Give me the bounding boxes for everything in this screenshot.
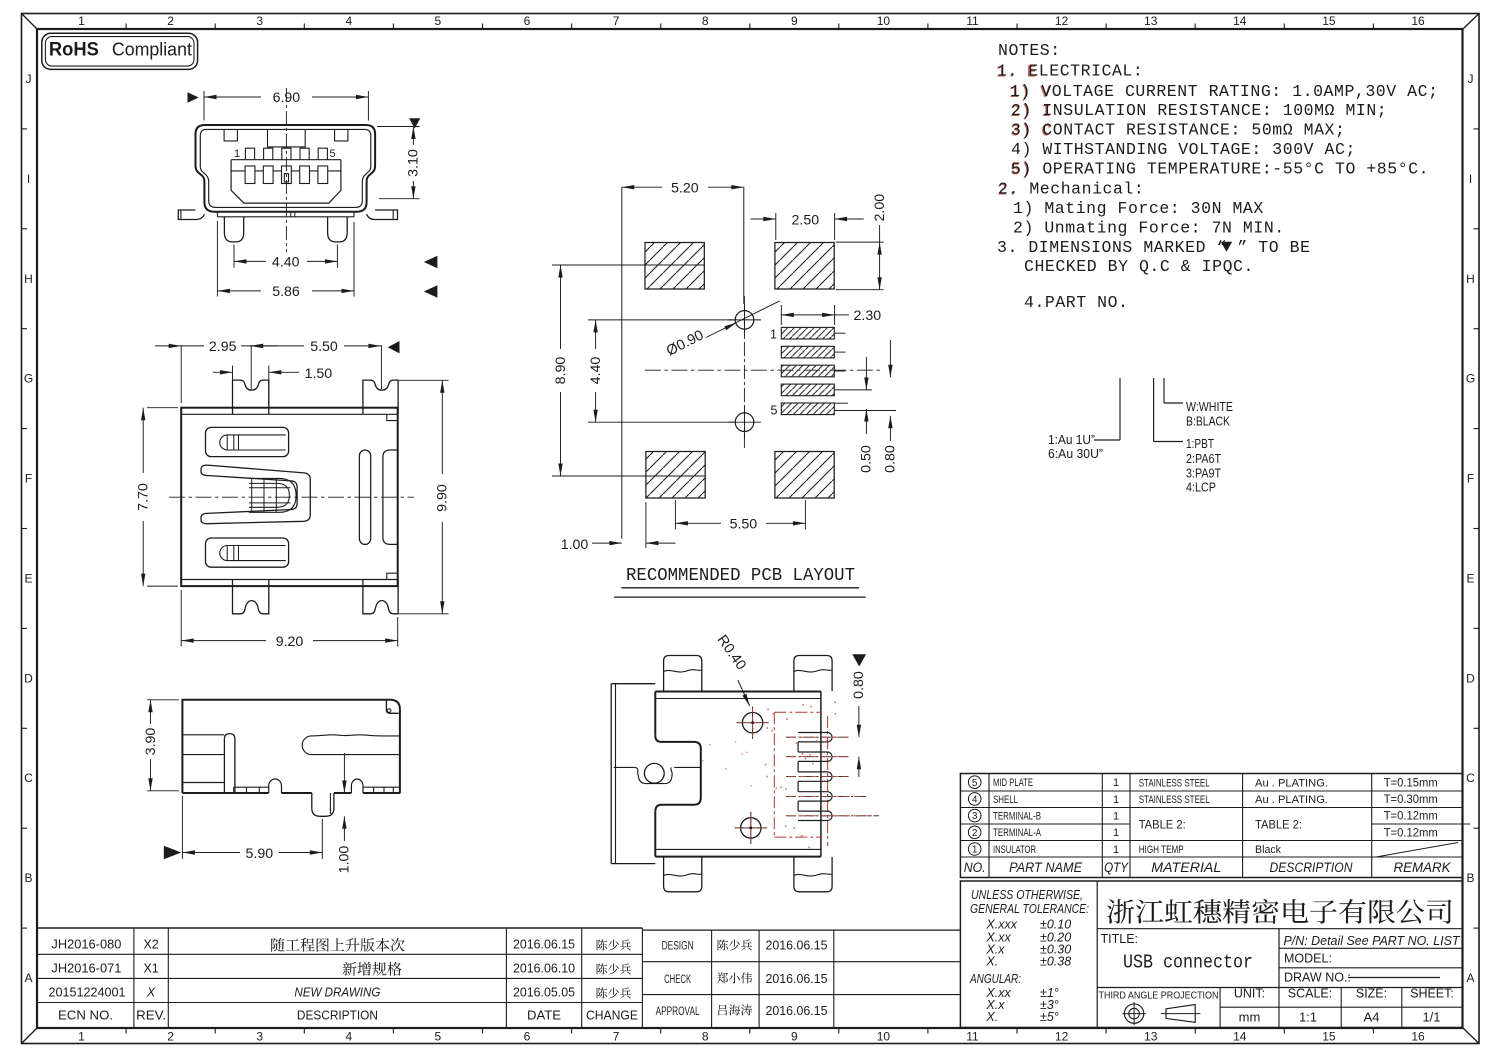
- svg-text:3: 3: [256, 1030, 263, 1044]
- svg-text:D: D: [1466, 671, 1475, 685]
- svg-text:TABLE 2:: TABLE 2:: [1139, 819, 1186, 831]
- bottom view interior C profile: [655, 736, 701, 812]
- dimension 1.50: [232, 366, 234, 405]
- bottom view keyway line and pocket: [614, 766, 635, 768]
- svg-text:TITLE:: TITLE:: [1101, 932, 1139, 946]
- svg-text:8: 8: [702, 14, 709, 28]
- svg-text:16: 16: [1411, 1030, 1425, 1044]
- top view mounting tab top-right: [363, 380, 398, 414]
- svg-text:2016.06.15: 2016.06.15: [766, 939, 828, 953]
- svg-text:3.90: 3.90: [143, 728, 159, 756]
- svg-text:7.70: 7.70: [136, 483, 152, 511]
- svg-text:5.50: 5.50: [310, 339, 338, 355]
- svg-text:9.90: 9.90: [435, 484, 451, 512]
- top view right top notch: [387, 414, 398, 420]
- front view shell outer outline: [196, 125, 376, 212]
- dimension 4.40: [233, 245, 235, 268]
- svg-text:SHEET:: SHEET:: [1410, 987, 1454, 1001]
- svg-text:2016.06.15: 2016.06.15: [766, 972, 828, 986]
- svg-text:3) CONTACT RESISTANCE: 50mΩ MA: 3) CONTACT RESISTANCE: 50mΩ MAX;: [1011, 121, 1345, 140]
- projection cone symbol: [1166, 1005, 1195, 1023]
- top view mounting tab bottom-right: [363, 580, 398, 614]
- svg-text:TABLE 2:: TABLE 2:: [1255, 819, 1302, 831]
- notes triangle symbol: [1221, 242, 1232, 252]
- svg-text:10: 10: [877, 14, 891, 28]
- svg-text:±0.38: ±0.38: [1040, 955, 1071, 969]
- dimension 2.30: [780, 305, 782, 325]
- svg-text:CHANGE: CHANGE: [586, 1008, 638, 1023]
- front view left solder leg: [224, 217, 243, 242]
- svg-text:SCALE:: SCALE:: [1288, 987, 1332, 1001]
- svg-text:Compliant: Compliant: [112, 39, 192, 60]
- svg-text:20151224001: 20151224001: [49, 986, 126, 1000]
- bottom view tab top-right: [794, 656, 832, 692]
- svg-text:B: B: [1466, 871, 1474, 885]
- svg-text:2) Unmating Force: 7N MIN.: 2) Unmating Force: 7N MIN.: [1013, 219, 1285, 238]
- svg-text:5.86: 5.86: [272, 284, 300, 300]
- svg-text:JH2016-071: JH2016-071: [51, 962, 121, 976]
- side view bottom edge: [182, 792, 268, 794]
- svg-text:MODEL:: MODEL:: [1284, 952, 1332, 966]
- front view tongue face line: [231, 170, 341, 172]
- svg-text:5.20: 5.20: [671, 181, 699, 197]
- dimension 5.50 pcb: [674, 500, 676, 530]
- svg-text:4.40: 4.40: [272, 254, 300, 270]
- svg-text:RoHS: RoHS: [49, 40, 99, 61]
- svg-text:5) OPERATING TEMPERATURE:-55°C: 5) OPERATING TEMPERATURE:-55°C TO +85°C.: [1011, 160, 1429, 179]
- svg-text:±0.10: ±0.10: [1040, 918, 1071, 932]
- svg-text:T=0.12mm: T=0.12mm: [1384, 827, 1438, 839]
- svg-text:UNIT:: UNIT:: [1234, 987, 1265, 1001]
- pcb pad bottom-left: [646, 452, 705, 499]
- svg-text:15: 15: [1322, 1030, 1336, 1044]
- svg-text:PART NAME: PART NAME: [1009, 860, 1083, 875]
- dimension 9.90: [399, 379, 449, 381]
- svg-text:2.30: 2.30: [853, 308, 881, 324]
- bottom view inner top line: [655, 698, 821, 700]
- svg-text:F: F: [25, 472, 32, 486]
- top view upper contact clip: [206, 427, 289, 456]
- bottom view tab top-left: [664, 656, 702, 692]
- top view lower contact clip: [206, 538, 289, 567]
- side view rolled edge curl: [386, 700, 398, 713]
- bottom view hole 1 crosshair: [742, 713, 762, 733]
- svg-text:2016.05.05: 2016.05.05: [513, 986, 575, 1000]
- svg-text:THIRD ANGLE PROJECTION: THIRD ANGLE PROJECTION: [1099, 990, 1219, 1002]
- svg-text:2:PA6T: 2:PA6T: [1186, 451, 1221, 466]
- svg-text:STAINLESS STEEL: STAINLESS STEEL: [1139, 777, 1210, 789]
- svg-text:2: 2: [167, 1030, 174, 1044]
- part number legend bracket C: [1163, 378, 1165, 403]
- svg-text:A: A: [24, 971, 32, 985]
- svg-text:HIGH TEMP: HIGH TEMP: [1139, 844, 1184, 856]
- svg-text:APPROVAL: APPROVAL: [656, 1006, 700, 1018]
- top view body outline: [181, 408, 398, 586]
- dimension 8.90: [552, 264, 704, 266]
- svg-text:2016.06.15: 2016.06.15: [513, 938, 575, 952]
- svg-text:1: 1: [1113, 777, 1119, 789]
- svg-text:1.00: 1.00: [337, 846, 353, 874]
- front view left mounting wing: [178, 210, 204, 220]
- svg-text:B: B: [24, 871, 32, 885]
- svg-text:4: 4: [972, 795, 978, 806]
- part number legend bracket A: [1119, 378, 1121, 440]
- parts table grid: [960, 774, 1462, 878]
- svg-text:J: J: [1468, 72, 1474, 86]
- svg-text:TERMINAL-B: TERMINAL-B: [993, 811, 1041, 823]
- dimension 1.00 side: [343, 753, 345, 793]
- svg-text:1/1: 1/1: [1422, 1010, 1440, 1025]
- svg-text:Au . PLATING.: Au . PLATING.: [1255, 794, 1328, 806]
- bottom view hole 2 crosshair: [741, 818, 761, 838]
- svg-text:E: E: [1466, 572, 1474, 586]
- side view front plate: [224, 734, 235, 793]
- svg-text:1: 1: [1113, 811, 1119, 823]
- svg-text:3. DIMENSIONS MARKED “ ” TO BE: 3. DIMENSIONS MARKED “ ” TO BE: [997, 238, 1311, 257]
- svg-text:9: 9: [791, 14, 798, 28]
- top view tongue tick lines: [251, 479, 253, 512]
- svg-text:NOTES:: NOTES:: [998, 41, 1061, 60]
- svg-text:1: 1: [1113, 827, 1119, 839]
- svg-text:12: 12: [1055, 14, 1069, 28]
- svg-text:T=0.30mm: T=0.30mm: [1384, 794, 1438, 806]
- side view left mount notch: [269, 779, 282, 793]
- svg-text:ECN NO.: ECN NO.: [58, 1008, 113, 1023]
- svg-text:MATERIAL: MATERIAL: [1151, 860, 1221, 875]
- dimension 0.50: [865, 357, 867, 390]
- svg-text:mm: mm: [1239, 1010, 1261, 1025]
- dimension 3.10: [377, 126, 420, 128]
- svg-text:9.20: 9.20: [276, 634, 304, 650]
- side view right comb feet: [363, 786, 400, 788]
- svg-text:C: C: [1466, 771, 1475, 785]
- svg-text:W:WHITE: W:WHITE: [1186, 399, 1233, 414]
- top view inner bottom line: [181, 579, 398, 581]
- bottom view keyway circle: [644, 763, 664, 783]
- svg-text:T=0.15mm: T=0.15mm: [1384, 777, 1438, 789]
- side view interior slot: [302, 736, 400, 755]
- svg-text:4.PART NO.: 4.PART NO.: [1024, 293, 1129, 312]
- top view right slot pill: [359, 450, 370, 544]
- svg-text:UNLESS OTHERWISE,: UNLESS OTHERWISE,: [971, 888, 1083, 902]
- svg-text:C: C: [24, 771, 33, 785]
- top view horizontal centerline: [169, 496, 414, 498]
- svg-text:16: 16: [1411, 14, 1425, 28]
- pcb horizontal centerline: [645, 369, 883, 371]
- svg-text:DESIGN: DESIGN: [662, 941, 694, 953]
- svg-text:3.10: 3.10: [406, 149, 422, 177]
- svg-text:D: D: [24, 671, 33, 685]
- svg-text:9: 9: [791, 1030, 798, 1044]
- svg-text:1. ELECTRICAL:: 1. ELECTRICAL:: [997, 62, 1143, 81]
- company name: [1107, 899, 1452, 924]
- top view tongue U inner: [249, 483, 290, 507]
- svg-text:1: 1: [1113, 844, 1119, 856]
- pcb edge line left: [621, 187, 623, 539]
- svg-text:DRAW NO.:: DRAW NO.:: [1284, 971, 1351, 985]
- side view right mount notch: [351, 779, 363, 793]
- svg-text:6: 6: [524, 1030, 531, 1044]
- bottom view red footprint overlay: [773, 712, 775, 837]
- svg-text:14: 14: [1233, 1030, 1247, 1044]
- pcb contact pad stubs: [834, 332, 845, 334]
- svg-text:USB connector: USB connector: [1123, 952, 1253, 974]
- svg-text:SIZE:: SIZE:: [1356, 987, 1387, 1001]
- bottom view body outline: [655, 691, 821, 693]
- svg-text:1: 1: [770, 328, 777, 342]
- dimension 4.40 pcb: [588, 319, 735, 321]
- svg-text:5: 5: [435, 1030, 442, 1044]
- svg-text:7: 7: [613, 1030, 620, 1044]
- svg-text:X: X: [146, 986, 156, 1000]
- dimension 2.00: [836, 241, 884, 243]
- RoHS label box: [42, 33, 198, 69]
- bottom view tab bottom-left: [664, 857, 702, 892]
- svg-text:1: 1: [78, 1030, 85, 1044]
- front view right solder leg: [328, 217, 348, 242]
- top view mounting tab bottom-left: [233, 580, 269, 614]
- dimension 7.70: [147, 407, 178, 409]
- svg-text:8: 8: [702, 1030, 709, 1044]
- svg-text:JH2016-080: JH2016-080: [51, 938, 121, 952]
- svg-text:CHECKED BY Q.C & IPQC.: CHECKED BY Q.C & IPQC.: [1024, 257, 1254, 276]
- front view insulator base plate: [217, 216, 354, 218]
- svg-text:8.90: 8.90: [553, 357, 569, 385]
- svg-text:I: I: [27, 172, 30, 186]
- top view inner top line: [181, 413, 398, 415]
- svg-text:7: 7: [613, 14, 620, 28]
- svg-text:4) WITHSTANDING VOLTAGE: 300V: 4) WITHSTANDING VOLTAGE: 300V AC;: [1011, 140, 1356, 159]
- svg-text:4: 4: [345, 14, 352, 28]
- svg-text:B:BLACK: B:BLACK: [1186, 414, 1230, 429]
- svg-text:RECOMMENDED PCB LAYOUT: RECOMMENDED PCB LAYOUT: [626, 566, 855, 586]
- front view shell seam ticks: [290, 212, 292, 217]
- svg-text:Au . PLATING.: Au . PLATING.: [1255, 777, 1328, 789]
- pcb pad bottom-right: [775, 452, 834, 499]
- svg-text:X1: X1: [143, 962, 158, 976]
- svg-text:X.: X.: [985, 955, 998, 969]
- svg-text:REMARK: REMARK: [1394, 860, 1452, 875]
- svg-text:14: 14: [1233, 14, 1247, 28]
- svg-text:1) Mating Force: 30N MAX: 1) Mating Force: 30N MAX: [1013, 199, 1264, 218]
- svg-text:4: 4: [345, 1030, 352, 1044]
- svg-text:5: 5: [972, 778, 978, 789]
- svg-text:X.xxx: X.xxx: [985, 918, 1017, 932]
- dimension 5.90: [181, 796, 183, 859]
- pcb center vertical line: [743, 187, 745, 304]
- svg-text:1: 1: [972, 845, 978, 856]
- top view mounting tab top-left: [233, 380, 269, 414]
- svg-text:0.80: 0.80: [883, 445, 899, 473]
- svg-text:X2: X2: [143, 938, 158, 952]
- top view right bottom notch: [387, 573, 398, 579]
- svg-text:15: 15: [1322, 14, 1336, 28]
- bottom view left plate: [610, 684, 612, 864]
- svg-text:±5°: ±5°: [1040, 1010, 1059, 1024]
- svg-text:1) VOLTAGE CURRENT RATING: 1.0: 1) VOLTAGE CURRENT RATING: 1.0AMP,30V AC…: [1010, 82, 1439, 101]
- side view right edge: [399, 709, 401, 793]
- svg-text:A4: A4: [1364, 1010, 1380, 1025]
- svg-text:3: 3: [972, 811, 978, 822]
- svg-text:1: 1: [234, 148, 240, 160]
- svg-text:DESCRIPTION: DESCRIPTION: [297, 1008, 378, 1023]
- front view shell inner outline: [200, 129, 370, 207]
- svg-text:13: 13: [1144, 14, 1158, 28]
- dimension 0.80 pcb: [889, 340, 891, 377]
- parts table circled numbers: [968, 776, 981, 789]
- dimension 5.50 top: [380, 345, 382, 389]
- dimension 5.86: [216, 221, 218, 297]
- top view tongue U outer: [249, 478, 296, 512]
- dimension 9.20: [180, 590, 182, 647]
- svg-text:NO.: NO.: [964, 860, 986, 875]
- svg-text:X.: X.: [985, 1010, 998, 1024]
- svg-text:CHECK: CHECK: [664, 974, 691, 986]
- svg-text:2: 2: [167, 14, 174, 28]
- top view right block: [383, 450, 398, 544]
- svg-text:5.50: 5.50: [730, 517, 758, 533]
- front view opening outline: [231, 160, 341, 203]
- dimension 2.50: [775, 213, 777, 240]
- svg-text:2) INSULATION RESISTANCE: 100M: 2) INSULATION RESISTANCE: 100MΩ MIN;: [1011, 101, 1387, 120]
- svg-text:1:Au 1U”: 1:Au 1U”: [1048, 432, 1095, 447]
- svg-text:A: A: [1466, 971, 1474, 985]
- svg-text:H: H: [1466, 272, 1475, 286]
- pcb hole 2: [735, 413, 754, 432]
- pcb hole 1: [735, 311, 754, 330]
- parts table remark diagonal: [1376, 843, 1458, 858]
- svg-text:2: 2: [972, 828, 978, 839]
- svg-text:TERMINAL-A: TERMINAL-A: [993, 827, 1041, 839]
- dimension 0.80 bottom: [852, 654, 866, 666]
- svg-text:13: 13: [1144, 1030, 1158, 1044]
- front view pin row 1: [245, 148, 254, 160]
- svg-text:E: E: [24, 572, 32, 586]
- bottom view red speckles: [786, 718, 788, 720]
- side view left block lines: [182, 734, 224, 736]
- svg-text:GENERAL TOLERANCE:: GENERAL TOLERANCE:: [970, 902, 1089, 916]
- svg-text:2.95: 2.95: [209, 339, 237, 355]
- bottom view inner bottom line: [655, 848, 821, 850]
- svg-text:11: 11: [966, 14, 979, 28]
- side view left comb feet: [234, 786, 269, 788]
- bottom view tab bottom-right: [794, 857, 832, 892]
- svg-text:2.00: 2.00: [872, 194, 888, 222]
- svg-text:T=0.12mm: T=0.12mm: [1384, 811, 1438, 823]
- svg-text:H: H: [24, 272, 33, 286]
- side view through leg: [312, 793, 334, 816]
- svg-text:1:PBT: 1:PBT: [1186, 436, 1214, 451]
- svg-text:G: G: [24, 372, 33, 386]
- dimension 6.90: [203, 91, 205, 121]
- svg-text:ANGULAR:: ANGULAR:: [969, 972, 1021, 986]
- pcb pad top-right: [775, 243, 834, 290]
- svg-text:3: 3: [256, 14, 263, 28]
- svg-text:11: 11: [966, 1030, 979, 1044]
- svg-text:I: I: [1469, 172, 1472, 186]
- title block grid: [960, 881, 1462, 1028]
- svg-text:1.00: 1.00: [561, 537, 589, 553]
- svg-text:1:1: 1:1: [1299, 1010, 1317, 1025]
- svg-text:2.50: 2.50: [791, 212, 819, 228]
- svg-text:1: 1: [1113, 794, 1119, 806]
- front view top-right notch: [335, 130, 348, 141]
- svg-text:DESCRIPTION: DESCRIPTION: [1270, 860, 1353, 875]
- svg-text:2. Mechanical:: 2. Mechanical:: [998, 180, 1144, 199]
- svg-text:1.50: 1.50: [305, 366, 333, 382]
- dimension 2.95: [180, 345, 182, 403]
- pcb contact pads 1-5: [781, 327, 834, 339]
- svg-text:P/N: Detail See PART NO. LIST: P/N: Detail See PART NO. LIST: [1284, 934, 1461, 948]
- front view vertical centerline: [285, 88, 287, 252]
- svg-text:4.40: 4.40: [588, 357, 604, 385]
- svg-text:3:PA9T: 3:PA9T: [1186, 466, 1221, 481]
- svg-text:6: 6: [524, 14, 531, 28]
- svg-text:SHELL: SHELL: [993, 794, 1018, 806]
- svg-text:NEW DRAWING: NEW DRAWING: [294, 986, 380, 1000]
- svg-text:5.90: 5.90: [245, 846, 273, 862]
- front view contact slots row 2: [245, 166, 255, 184]
- svg-text:0.80: 0.80: [851, 671, 867, 699]
- svg-text:0.50: 0.50: [859, 445, 875, 473]
- svg-text:4:LCP: 4:LCP: [1186, 480, 1216, 495]
- front view top-center tab: [268, 130, 306, 147]
- svg-text:5: 5: [435, 14, 442, 28]
- svg-text:5: 5: [771, 403, 778, 417]
- top view tongue slot lines: [249, 487, 291, 489]
- svg-text:INSULATOR: INSULATOR: [993, 844, 1036, 856]
- svg-text:STAINLESS STEEL: STAINLESS STEEL: [1139, 794, 1210, 806]
- svg-text:6:Au 30U”: 6:Au 30U”: [1048, 446, 1103, 461]
- svg-text:J: J: [26, 72, 32, 86]
- dimension 5.20: [622, 186, 662, 188]
- svg-text:QTY: QTY: [1104, 860, 1129, 875]
- front view center key slot: [284, 174, 288, 182]
- svg-text:10: 10: [877, 1030, 891, 1044]
- front view top-left notch: [224, 130, 237, 141]
- svg-text:DATE: DATE: [527, 1008, 561, 1023]
- svg-text:6.90: 6.90: [273, 90, 301, 106]
- top view center spring arm: [201, 465, 310, 524]
- svg-text:MID PLATE: MID PLATE: [993, 777, 1033, 789]
- svg-text:F: F: [1467, 472, 1474, 486]
- svg-text:1: 1: [78, 14, 85, 28]
- front view tongue top line: [231, 159, 341, 161]
- pcb pad top-left: [645, 243, 704, 290]
- svg-text:Black: Black: [1255, 844, 1281, 856]
- dimension 3.90: [147, 699, 179, 701]
- revision table grid: [37, 927, 642, 929]
- svg-text:G: G: [1466, 372, 1475, 386]
- svg-text:5: 5: [330, 148, 336, 160]
- svg-text:2016.06.10: 2016.06.10: [513, 962, 575, 976]
- svg-text:REV.: REV.: [136, 1008, 166, 1023]
- svg-text:2016.06.15: 2016.06.15: [766, 1004, 828, 1018]
- sheet corner diagonals: [22, 14, 38, 30]
- front view right mounting wing: [367, 210, 398, 220]
- bottom view contact fingers: [798, 733, 832, 742]
- side view body outline: [182, 700, 400, 793]
- approval block grid: [642, 929, 960, 931]
- part number legend bracket B: [1153, 378, 1155, 442]
- svg-text:12: 12: [1055, 1030, 1069, 1044]
